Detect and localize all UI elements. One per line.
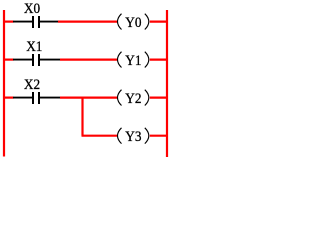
wire rung3 coil to rail bbox=[150, 96, 167, 98]
svg-text:X2: X2 bbox=[24, 76, 40, 93]
svg-text:X1: X1 bbox=[26, 38, 42, 55]
wire rung3 to coil bbox=[60, 96, 117, 98]
svg-text:X0: X0 bbox=[24, 0, 41, 17]
coil Y0 bbox=[118, 14, 149, 30]
wire rung2 coil to rail bbox=[150, 58, 167, 60]
contact X1 bbox=[33, 54, 60, 66]
coil Y1 bbox=[118, 52, 149, 68]
svg-text:Y0: Y0 bbox=[125, 14, 142, 31]
wire rung3 left stub bbox=[3, 96, 14, 98]
contact X2 bbox=[33, 92, 60, 104]
svg-text:Y2: Y2 bbox=[125, 90, 141, 107]
wire branch to coil Y3 bbox=[82, 135, 118, 137]
wire branch vertical from rung3 bbox=[81, 97, 83, 136]
wire rung2 to coil bbox=[60, 58, 117, 60]
wire rung1 to coil bbox=[58, 21, 117, 23]
coil Y2 bbox=[118, 90, 149, 106]
left power rail bbox=[3, 10, 5, 157]
contact X0 bbox=[33, 16, 58, 28]
wire rung1 contact left lead bbox=[13, 21, 32, 23]
wire rung1 coil to rail bbox=[150, 21, 167, 23]
right power rail bbox=[166, 10, 168, 157]
wire branch coil to rail bbox=[150, 135, 167, 137]
wire rung2 left stub bbox=[3, 58, 14, 60]
svg-text:Y3: Y3 bbox=[125, 128, 141, 145]
wire rung1 left stub bbox=[3, 21, 14, 23]
wire rung2 contact left lead bbox=[13, 59, 32, 61]
coil Y3 bbox=[118, 128, 149, 144]
svg-text:Y1: Y1 bbox=[125, 52, 141, 69]
wire rung3 contact left lead bbox=[13, 97, 32, 99]
